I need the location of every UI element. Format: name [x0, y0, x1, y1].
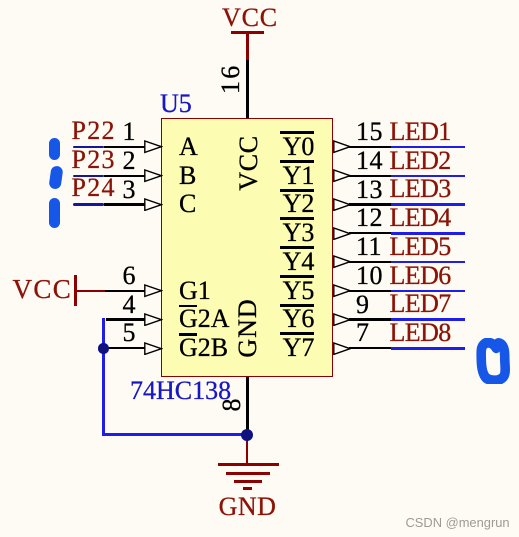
pin name G1 [179, 278, 211, 304]
overline on Y4 [280, 246, 314, 249]
wire net LED7 (blue) [391, 318, 465, 321]
pin name Y5 [250, 278, 314, 304]
ground symbol GND label [214, 494, 281, 520]
wire VCC to pin 6 (red segment) [76, 290, 105, 292]
pin name VCC (rotated, in box) [236, 135, 262, 191]
annotation mark 1 (blue pill) [49, 138, 61, 161]
pin 3 arrow [144, 198, 163, 211]
net label P23 [72, 147, 116, 173]
pin 16 wire [246, 60, 249, 119]
wire net LED5 (blue) [391, 261, 465, 264]
pin 1 wire [104, 146, 145, 148]
pin name Y3 [250, 220, 314, 246]
pin 8 wire [246, 377, 249, 435]
pin 14 arrow [333, 169, 352, 182]
pin name Y4 [250, 249, 314, 275]
pin number 8 (rotated) [219, 392, 245, 418]
ground symbol bar 2 [226, 472, 270, 475]
pin 9 arrow [333, 313, 352, 326]
pin 10 wire [349, 290, 392, 292]
pin number 3 [123, 177, 136, 203]
net label LED4 [390, 205, 451, 231]
pin 2 arrow [144, 169, 163, 182]
pin name Y2 [250, 191, 314, 217]
power symbol VCC (left) label [13, 276, 73, 303]
pin number 12 [356, 205, 383, 231]
net label LED6 [390, 263, 451, 289]
pin name Y1 [250, 163, 314, 189]
overline on Y3 [280, 217, 314, 220]
pin 2 wire [104, 175, 145, 177]
wire net LED6 (blue) [391, 290, 465, 293]
pin number 4 [123, 292, 136, 318]
wire net P24 (navy stub) [73, 203, 105, 206]
overline on Y1 [280, 160, 314, 163]
pin number 2 [123, 148, 136, 174]
annotation mark 3 (blue pill) [49, 198, 61, 228]
pin 6 arrow [144, 284, 163, 297]
wire net LED8 (blue) [391, 347, 465, 350]
net label LED1 [390, 119, 451, 145]
power symbol VCC (left) bar [74, 275, 77, 305]
pin name GND (rotated, in box) [235, 298, 261, 358]
pin 13 arrow [333, 198, 352, 211]
pin 1 arrow [144, 140, 163, 153]
pin 10 arrow [333, 284, 352, 297]
overline on Y2 [280, 189, 314, 192]
pin 5 wire [106, 347, 145, 349]
net label P24 [72, 175, 116, 201]
net label LED8 [390, 320, 451, 346]
pin 4 wire [106, 318, 145, 320]
wire net P22 (navy stub) [73, 146, 105, 149]
ground symbol bar 3 [234, 480, 262, 483]
annotation mark 4 (blue ring) [474, 338, 514, 384]
net label P22 [72, 118, 116, 144]
overline on G2B [179, 333, 197, 336]
watermark text [406, 515, 510, 530]
ground symbol bar 4 [243, 487, 252, 490]
net label LED2 [390, 148, 451, 174]
overline on Y7 [280, 332, 314, 335]
pin 5 arrow [144, 342, 163, 355]
pin 7 arrow [333, 342, 352, 355]
pin number 10 [356, 263, 383, 289]
pin number 16 (rotated) [218, 68, 244, 94]
pin 15 wire [349, 146, 392, 148]
pin number 15 [356, 119, 383, 145]
pin name G2A [179, 306, 230, 332]
pin 11 arrow [333, 255, 352, 268]
pin name Y7 [250, 335, 314, 361]
annotation mark 2 (blue pill) [48, 165, 63, 189]
pin name A [179, 134, 198, 160]
pin 15 arrow [333, 140, 352, 153]
junction node at pin 5 [98, 343, 109, 354]
wire to GND junction horizontal (blue) [102, 433, 247, 436]
overline on Y0 [280, 131, 314, 134]
power symbol VCC (top) bar [231, 31, 263, 34]
wire VCC to pin 16 (red segment) [246, 34, 249, 60]
pin name C [179, 191, 196, 217]
overline on Y5 [280, 275, 314, 278]
pin 3 wire [104, 203, 145, 205]
pin number 14 [356, 148, 383, 174]
net label LED7 [390, 291, 451, 317]
pin name Y0 [250, 134, 314, 160]
wire G2A/G2B vertical (blue) [102, 318, 105, 436]
wire net LED3 (blue) [391, 203, 465, 206]
wire net LED1 (blue) [391, 146, 465, 149]
pin 7 wire [349, 347, 392, 349]
designator U5 [160, 91, 192, 117]
pin number 11 [356, 234, 382, 260]
pin 6 wire [105, 290, 146, 292]
pin number 9 [356, 292, 370, 318]
ground symbol stem [246, 433, 249, 465]
power symbol VCC (top) label [222, 5, 274, 31]
net label LED3 [390, 176, 451, 202]
pin 4 arrow [144, 313, 163, 326]
pin 13 wire [349, 203, 392, 205]
overline on G2A [179, 305, 197, 308]
wire net LED2 (blue) [391, 175, 465, 178]
ground symbol bar 1 [218, 463, 280, 466]
pin 12 wire [349, 232, 392, 234]
pin number 1 [123, 119, 136, 145]
pin number 13 [356, 177, 383, 203]
net label LED5 [390, 234, 451, 260]
pin number 5 [123, 320, 136, 346]
value label 74HC138 [130, 378, 231, 404]
pin 12 arrow [333, 227, 352, 240]
junction node at GND stem [241, 429, 253, 441]
pin 14 wire [349, 175, 392, 177]
pin name Y6 [250, 306, 314, 332]
pin name B [179, 163, 196, 189]
pin name G2B [179, 335, 228, 361]
wire net LED4 (blue) [391, 232, 465, 235]
IC body U5 (74HC138) yellow rectangle [161, 118, 333, 377]
pin 9 wire [349, 318, 392, 320]
pin number 6 [123, 263, 136, 289]
overline on Y6 [280, 304, 314, 307]
wire net P23 (navy stub) [73, 175, 105, 178]
pin 11 wire [349, 261, 392, 263]
pin number 7 [356, 320, 370, 346]
